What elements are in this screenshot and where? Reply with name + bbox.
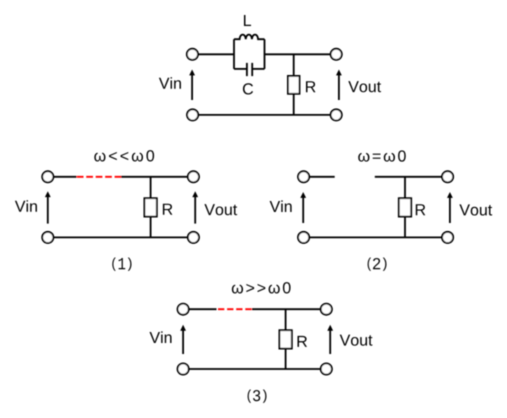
resistor R body [288, 76, 300, 94]
wire: shorted inductor (red dashed) [77, 176, 121, 178]
label (1) [112, 258, 131, 271]
label: omega much greater than omega0 [232, 282, 291, 293]
label (2) [368, 258, 387, 271]
resistor R lead bottom [404, 217, 406, 238]
label R [298, 336, 308, 347]
wire: top left stub (open circuit) [310, 176, 335, 178]
circuit 3: high-frequency equivalent [150, 282, 373, 403]
inductor L [234, 35, 265, 40]
wire: top right, junction with R [375, 176, 442, 178]
resistor R lead top [293, 54, 295, 76]
arrow: Vout [327, 325, 333, 354]
label R [416, 204, 426, 215]
resistor R lead bottom [293, 94, 295, 115]
terminal: Vin bottom [298, 232, 309, 243]
arrow: Vout [192, 191, 198, 223]
label Vout [348, 81, 381, 92]
label: omega equals omega0 [358, 150, 406, 161]
arrow: Vin [189, 70, 195, 101]
wire: top left stub [54, 176, 77, 178]
terminal: Vin bottom [187, 109, 198, 120]
wire: shorted capacitor (red dashed) [218, 308, 252, 310]
wire: top right, junction with R [121, 176, 187, 178]
resistor R lead top [150, 177, 152, 198]
terminal: Vin bottom [42, 232, 53, 243]
resistor R body [279, 330, 291, 348]
arrow: Vin [180, 325, 186, 354]
label Vout [204, 204, 237, 215]
terminal: Vin top [178, 304, 189, 315]
label L [244, 15, 251, 26]
label (3) [248, 390, 267, 403]
resistor R lead top [285, 309, 287, 330]
label C [243, 83, 253, 94]
resistor R lead top [404, 177, 406, 198]
label Vin [270, 200, 292, 212]
terminal: Vout top [442, 171, 453, 182]
wire: bottom rail, junction with R [199, 114, 330, 116]
terminal: Vout bottom [321, 363, 332, 374]
label Vout [340, 335, 373, 346]
resistor R body [399, 198, 411, 216]
capacitor C plate left [246, 63, 248, 76]
wire: LC tank to Vout top, junction with R [265, 53, 331, 55]
label Vin [15, 200, 37, 212]
terminal: Vin top [187, 49, 198, 60]
wire: Vin top to LC tank [199, 53, 234, 55]
capacitor C lead left [234, 68, 247, 70]
terminal: Vout top [188, 171, 199, 182]
label R [306, 81, 316, 92]
wire: bottom rail, junction with R [310, 236, 442, 238]
label Vin [159, 77, 181, 89]
circuit 2: resonance equivalent [270, 150, 493, 271]
label R [163, 204, 173, 215]
wire: top left stub [189, 308, 216, 310]
wire: bottom rail, junction with R [54, 236, 187, 238]
resistor R lead bottom [150, 217, 152, 238]
resistor R lead bottom [285, 349, 287, 369]
circuit 1: low-frequency equivalent [15, 150, 237, 271]
terminal: Vin bottom [178, 363, 189, 374]
label Vout [459, 204, 492, 215]
wire: bottom rail, junction with R [189, 368, 320, 370]
terminal: Vout top [331, 49, 342, 60]
arrow: Vin [300, 192, 306, 223]
arrow: Vout [447, 192, 453, 223]
capacitor C lead right [252, 68, 264, 70]
terminal: Vout bottom [188, 232, 199, 243]
wire: LC tank left vertical [233, 39, 235, 69]
terminal: Vout bottom [331, 109, 342, 120]
label Vin [150, 331, 172, 343]
terminal: Vin top [298, 171, 309, 182]
arrow: Vin [45, 191, 51, 223]
terminal: Vout top [321, 304, 332, 315]
arrow: Vout [336, 70, 342, 101]
wire: top right, junction with R [252, 308, 320, 310]
capacitor C plate right [251, 63, 253, 76]
circuit: LC band-stop filter (top) [159, 15, 381, 121]
resistor R body [144, 198, 156, 216]
terminal: Vin top [42, 171, 53, 182]
wire: LC tank right vertical [264, 39, 266, 69]
label: omega much less than omega0 [94, 150, 154, 161]
terminal: Vout bottom [442, 232, 453, 243]
